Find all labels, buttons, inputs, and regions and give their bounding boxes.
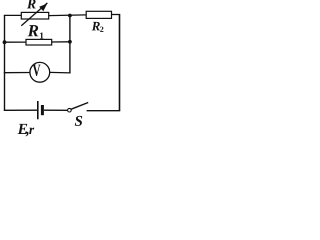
voltmeter V body	[30, 62, 50, 82]
wire: row2 right segment	[52, 41, 70, 43]
voltmeter V letter	[33, 65, 41, 76]
wire: row2 left segment	[5, 41, 27, 43]
label E,r	[17, 124, 27, 134]
wire: top rail middle segment	[49, 14, 86, 17]
wire: right rail	[119, 15, 121, 111]
node: junction dot top	[68, 14, 72, 18]
resistor R1 body	[26, 39, 52, 45]
switch S blade	[71, 103, 88, 110]
resistor R2 body	[86, 11, 111, 18]
wire: top rail left segment	[4, 14, 22, 16]
wire: middle rail	[69, 16, 71, 73]
label R2	[92, 22, 100, 31]
wire: bottom rail left segment	[4, 109, 37, 111]
switch S pivot circle	[68, 108, 72, 112]
rheostat arrow shaft	[21, 3, 47, 26]
wire: row3 right segment	[50, 71, 71, 74]
label R	[27, 0, 36, 8]
rheostat arrowhead	[39, 4, 47, 12]
label R1	[28, 25, 39, 36]
label S	[75, 116, 82, 126]
wire: left rail	[4, 15, 6, 110]
node: junction dot on left rail	[3, 40, 7, 44]
wire: top rail right segment	[112, 14, 121, 16]
wire: bottom rail right segment	[87, 110, 121, 112]
battery E long plate	[37, 101, 39, 119]
node: junction dot row2	[68, 40, 72, 44]
wire: bottom rail middle segment	[44, 109, 67, 111]
wire: row3 left segment	[4, 72, 30, 74]
battery E short plate	[41, 105, 44, 115]
resistor R (rheostat body)	[21, 12, 48, 19]
